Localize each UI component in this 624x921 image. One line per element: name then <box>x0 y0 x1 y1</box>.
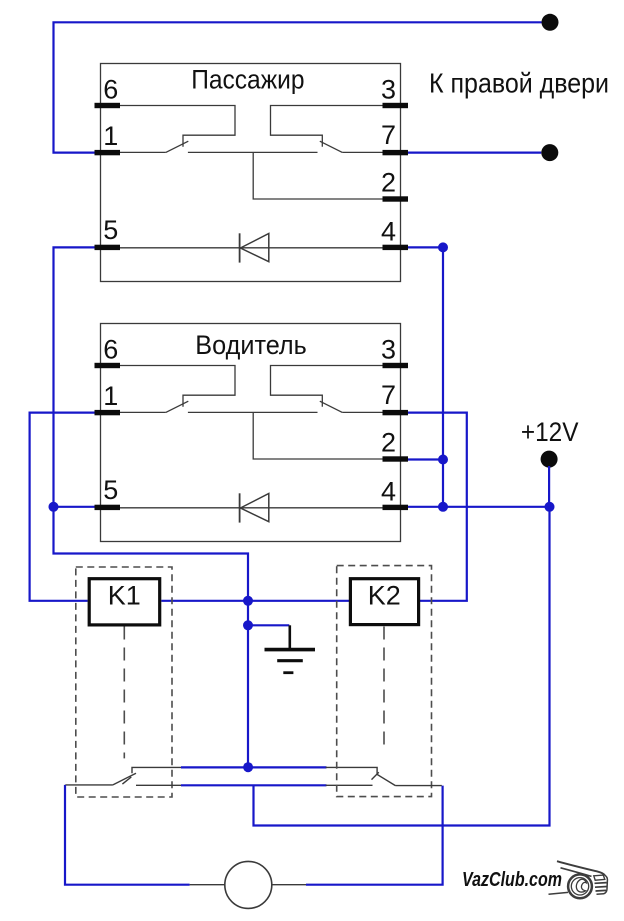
motor lead left <box>190 884 226 886</box>
relay K2 contact arm <box>377 774 395 785</box>
relay K1 dashed enclosure <box>76 567 172 797</box>
relay K1 coil box <box>89 579 160 625</box>
wire driver pin 5 <box>54 506 95 508</box>
junction relay outputs <box>243 596 253 606</box>
relay K1 contact arm <box>113 773 136 785</box>
svg-text:3: 3 <box>381 75 396 105</box>
relay K2 common lead <box>395 785 441 787</box>
pin 3 contact link (driver) <box>271 366 383 407</box>
switch arm left (passenger) <box>166 141 189 152</box>
pin 7 lead (driver) <box>342 411 382 413</box>
relay K1 coil-contact link (dashed) <box>123 627 125 759</box>
pin 3 contact link (passenger) <box>271 106 383 147</box>
relay K2 arm slash <box>372 772 379 779</box>
terminal dot to right door (lower) <box>541 144 558 161</box>
pin 5 tick (passenger) <box>95 245 121 250</box>
diode (passenger) <box>239 233 241 262</box>
pin 6 tick (passenger) <box>95 103 121 108</box>
wire driver pin 7 to relay K2 <box>408 413 467 601</box>
logo car sketch <box>549 861 608 898</box>
svg-text:K2: K2 <box>368 581 401 611</box>
pin 6 tick (driver) <box>95 363 121 368</box>
wire K1 common to motor left <box>65 785 190 885</box>
wire NC contacts to +12V <box>181 784 327 786</box>
switch arm left (driver) <box>166 401 189 412</box>
wire NO contacts join <box>181 766 327 768</box>
pin 4 tick (driver) <box>383 505 409 510</box>
pin 5 to pin 4 line (passenger) <box>120 247 383 249</box>
common rail (passenger) <box>188 151 318 153</box>
pin 1 tick (driver) <box>95 410 121 415</box>
motor lead right <box>272 884 306 886</box>
junction driver pin 2 <box>438 455 448 465</box>
pin 2 tick (driver) <box>383 456 409 461</box>
pin 1 lead (passenger) <box>120 151 166 153</box>
svg-text:5: 5 <box>103 475 118 505</box>
svg-text:VazClub.com: VazClub.com <box>462 869 562 891</box>
svg-text:4: 4 <box>381 217 396 247</box>
svg-text:7: 7 <box>381 120 396 150</box>
relay K2 NO contact <box>326 767 378 774</box>
svg-text:K1: K1 <box>108 581 141 611</box>
wire relay K1 to relay K2 <box>161 600 349 602</box>
junction driver pin 4 <box>438 502 448 512</box>
svg-text:7: 7 <box>381 380 396 410</box>
svg-text:Водитель: Водитель <box>195 330 306 360</box>
wire motor right to K2 common <box>306 786 443 885</box>
motor M1 <box>225 861 272 908</box>
relay K1 arm slash <box>122 777 131 784</box>
relay K1 common lead <box>65 784 113 786</box>
wire driver pin 2 <box>408 458 443 460</box>
junction driver pin 5 <box>49 502 59 512</box>
pin 5 to pin 4 line (driver) <box>120 507 383 509</box>
wire battery feed to passenger pin 1 and right door <box>54 22 542 152</box>
svg-text:3: 3 <box>381 335 396 365</box>
junction +12V rail <box>545 502 555 512</box>
svg-text:2: 2 <box>381 168 396 198</box>
wire passenger pin 5 / driver pin 5 chain to relay contacts <box>54 247 249 767</box>
svg-text:6: 6 <box>103 335 118 365</box>
svg-text:+12V: +12V <box>521 417 579 447</box>
ground <box>288 625 291 648</box>
relay K2 dashed enclosure <box>337 566 432 797</box>
wire +12V terminal down <box>548 466 550 507</box>
pin 7 tick (driver) <box>383 410 409 415</box>
pin 6 contact link (driver) <box>120 366 235 407</box>
wire driver pin 4 to +12V drop <box>408 506 550 508</box>
relay K1 NO contact <box>132 767 182 773</box>
svg-text:1: 1 <box>103 121 118 151</box>
driver switch unit outline <box>101 324 401 542</box>
relay K2 coil-contact link (dashed) <box>383 627 385 753</box>
center tap to pin 2 (passenger) <box>253 152 382 199</box>
pin 5 tick (driver) <box>95 505 121 510</box>
pin 2 tick (passenger) <box>383 196 409 201</box>
relay K1 NC contact <box>136 784 182 786</box>
svg-text:5: 5 <box>103 215 118 245</box>
pin 7 tick (passenger) <box>383 150 409 155</box>
svg-text:1: 1 <box>103 381 118 411</box>
junction passenger pin 4 <box>438 242 448 252</box>
junction ground branch <box>243 620 253 630</box>
wire ground branch <box>248 624 289 626</box>
common rail (driver) <box>188 411 318 413</box>
pin 4 tick (passenger) <box>383 245 409 250</box>
svg-text:2: 2 <box>381 428 396 458</box>
wire passenger pin 7 to right door <box>408 152 541 154</box>
switch arm right (passenger) <box>320 141 343 152</box>
terminal +12V <box>541 451 558 468</box>
svg-text:Пассажир: Пассажир <box>191 65 304 95</box>
passenger switch unit outline <box>101 64 401 282</box>
pin 1 tick (passenger) <box>95 150 121 155</box>
junction NO contacts to ground net <box>243 762 253 772</box>
pin 3 tick (passenger) <box>383 103 409 108</box>
relay K2 NC contact <box>326 784 373 786</box>
svg-text:4: 4 <box>381 477 396 507</box>
svg-text:К правой двери: К правой двери <box>429 68 609 99</box>
pin 1 lead (driver) <box>120 411 166 413</box>
wire +12V rail to relay NC contacts <box>254 507 550 826</box>
pin 6 contact link (passenger) <box>120 106 235 147</box>
wire passenger pin 4 down right side <box>408 247 443 506</box>
terminal dot to right door (upper) <box>542 14 559 31</box>
switch arm right (driver) <box>320 401 343 412</box>
center tap to pin 2 (driver) <box>253 412 382 459</box>
pin 7 lead (passenger) <box>342 151 382 153</box>
pin 3 tick (driver) <box>383 363 409 368</box>
relay K2 coil box <box>350 579 418 625</box>
wire driver pin 1 to relay K1 <box>30 413 95 601</box>
svg-text:6: 6 <box>103 75 118 105</box>
diode (driver) <box>239 493 241 522</box>
